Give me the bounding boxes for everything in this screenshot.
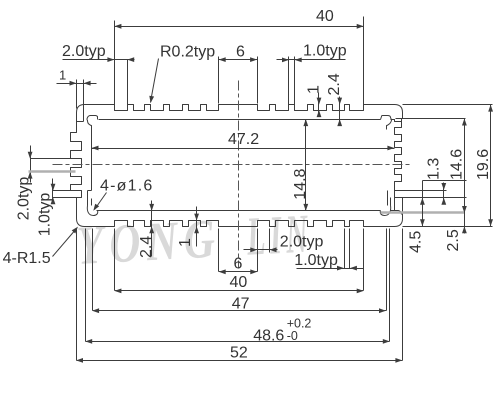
svg-text:6: 6	[234, 256, 243, 273]
svg-text:6: 6	[236, 43, 245, 60]
svg-text:2.0typ: 2.0typ	[62, 43, 106, 60]
svg-text:1.0typ: 1.0typ	[37, 193, 54, 237]
svg-text:2.5: 2.5	[445, 229, 462, 251]
svg-text:1: 1	[177, 238, 194, 247]
svg-text:1: 1	[306, 85, 323, 94]
svg-text:14.6: 14.6	[449, 149, 466, 180]
svg-text:52: 52	[230, 345, 248, 362]
svg-text:1.0typ: 1.0typ	[303, 43, 347, 60]
svg-text:48.6: 48.6	[253, 328, 284, 345]
svg-text:2.4: 2.4	[326, 73, 343, 95]
svg-text:40: 40	[230, 274, 248, 291]
svg-text:1.0typ: 1.0typ	[294, 252, 338, 269]
svg-text:1: 1	[59, 68, 66, 83]
svg-text:4-ø1.6: 4-ø1.6	[100, 178, 153, 195]
svg-text:2.0typ: 2.0typ	[16, 177, 33, 221]
svg-text:14.8: 14.8	[292, 168, 309, 199]
svg-text:47.2: 47.2	[228, 131, 259, 148]
svg-text:1.3: 1.3	[426, 158, 443, 180]
svg-text:-0: -0	[287, 329, 298, 343]
svg-text:2.0typ: 2.0typ	[280, 234, 324, 251]
svg-text:47: 47	[232, 295, 250, 312]
svg-text:4.5: 4.5	[408, 231, 425, 253]
svg-text:R0.2typ: R0.2typ	[160, 44, 215, 61]
svg-text:2.4: 2.4	[138, 236, 155, 258]
svg-text:40: 40	[316, 8, 334, 25]
svg-text:19.6: 19.6	[475, 149, 492, 180]
svg-text:4-R1.5: 4-R1.5	[3, 250, 51, 267]
